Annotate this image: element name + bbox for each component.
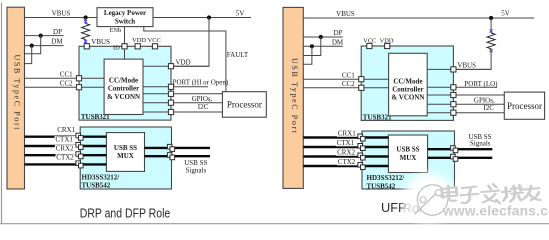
pin VDD top of U1 xyxy=(135,44,140,49)
svg-text:CC1: CC1 xyxy=(60,70,73,78)
pin SS RX of U7 xyxy=(451,154,458,161)
svg-text:USB SS: USB SS xyxy=(114,144,137,152)
watermark glyph dian xyxy=(441,186,458,202)
svg-text:5V: 5V xyxy=(501,9,510,17)
svg-text:USB SS: USB SS xyxy=(396,146,419,154)
svg-text:USB TypeC Port: USB TypeC Port xyxy=(13,55,22,131)
pin PORT of U5 xyxy=(451,85,456,90)
svg-text:CTX1: CTX1 xyxy=(55,136,73,144)
svg-text:5V: 5V xyxy=(236,9,245,17)
net label CRX1 right xyxy=(337,129,359,137)
svg-text:CC/Mode: CC/Mode xyxy=(109,77,138,85)
junction DM right xyxy=(310,44,314,48)
wire DM of J2 xyxy=(303,45,343,47)
wire 5V rail from switch output xyxy=(153,17,251,19)
svg-text:ID: ID xyxy=(113,45,120,52)
svg-text:DM: DM xyxy=(332,38,344,46)
pin VBUS of U5 xyxy=(451,67,456,72)
svg-text:CC2: CC2 xyxy=(342,80,355,88)
pin CRX2 of U7 xyxy=(358,153,365,160)
wire USB SS pair 1 out of right mux xyxy=(428,148,493,150)
svg-text:I2C: I2C xyxy=(198,103,209,111)
wire DP return to J1 xyxy=(25,36,41,54)
wire R2 top lead xyxy=(490,18,492,33)
pin GPIO2 of U5 xyxy=(451,102,456,107)
frame left border line xyxy=(1,3,3,224)
TUSB321 device U1 xyxy=(79,46,171,120)
watermark glyph shao xyxy=(502,185,524,203)
net label CTX2 xyxy=(56,154,77,162)
svg-text:Processor: Processor xyxy=(227,100,262,110)
wire DM return to J1 xyxy=(25,46,32,64)
pin CTX2 of U7 xyxy=(358,163,365,170)
wire CRX1 pair from J1 to mux xyxy=(25,135,107,137)
net label CTX1 right xyxy=(336,139,359,147)
pin CTX1 of U4 xyxy=(76,143,83,150)
wire CTX1 pair from J1 to mux xyxy=(25,145,107,147)
svg-text:CTX2: CTX2 xyxy=(338,158,356,166)
pin GPIO2 of U1 xyxy=(168,100,173,105)
wire DP of J1 xyxy=(25,35,64,37)
wire CC2 from J2 to U5 xyxy=(303,87,388,89)
svg-text:DM: DM xyxy=(51,38,63,46)
junction on 5V rail to VDD xyxy=(207,15,211,19)
resistor R2 (VBUS pull) xyxy=(487,33,495,49)
svg-text:MUX: MUX xyxy=(400,154,417,162)
R2 bottom terminal mark xyxy=(490,49,493,52)
wire R2 to VBUS pin of U5 xyxy=(456,49,491,70)
wire CC2 from J1 to U1 xyxy=(25,86,105,88)
USB SS MUX core of U4 xyxy=(106,133,144,172)
wire R1 bottom lead xyxy=(85,40,87,45)
net label CRX2 right xyxy=(336,148,358,156)
svg-text:USB TypeC Port: USB TypeC Port xyxy=(290,58,299,134)
CC/Mode controller core of U1 xyxy=(104,59,143,114)
svg-text:CRX2: CRX2 xyxy=(337,148,355,156)
svg-text:VCC: VCC xyxy=(363,37,376,44)
processor U3 xyxy=(222,92,266,118)
svg-text:CRX1: CRX1 xyxy=(338,129,356,137)
wire CC1 from J2 to U5 xyxy=(303,78,388,80)
wire CTX1 pair from J2 to mux xyxy=(303,146,388,148)
pin CC1 of U5 xyxy=(359,77,364,82)
svg-text:ENb: ENb xyxy=(110,27,122,34)
svg-text:VBUS: VBUS xyxy=(52,9,71,17)
watermark white halo xyxy=(403,173,455,223)
pin GPIO1 of U1 xyxy=(168,91,173,96)
junction DM left xyxy=(30,44,34,48)
svg-text:I2C: I2C xyxy=(483,104,494,112)
wire GPIO line 2 U1 to processor xyxy=(143,102,222,104)
pin CC2 of U5 xyxy=(359,85,364,90)
wire I2C line U5 to processor xyxy=(427,112,504,114)
wire CTX2 pair from J2 to mux xyxy=(303,165,388,167)
svg-text:CRX1: CRX1 xyxy=(57,126,75,134)
HD3SS3212/TUSB542 mux device U7 xyxy=(362,131,455,189)
svg-text:Signals: Signals xyxy=(186,166,207,174)
USB SS MUX core of U7 xyxy=(388,135,427,173)
wire DM of J1 xyxy=(25,45,64,47)
CC/Mode controller core of U5 xyxy=(389,53,428,116)
pin CRX1 of U7 xyxy=(358,134,365,141)
wire GPIO line 1 U1 to processor xyxy=(143,93,222,95)
wire VDD side pin of U1 xyxy=(143,65,209,67)
wire USB SS pair 1 out of mux xyxy=(145,147,211,149)
svg-text:Signals: Signals xyxy=(470,140,491,148)
wire ID pin to controller core xyxy=(124,49,126,59)
wire PORT stub of U1 xyxy=(143,86,208,88)
resistor R1 (VBUS pull) xyxy=(82,24,90,40)
wire CC1 from J1 to U1 xyxy=(25,77,105,79)
pin CTX1 of U7 xyxy=(358,144,365,151)
wire FAULT from U2 to processor xyxy=(144,27,226,92)
pin GPIO1 of U5 xyxy=(451,92,456,97)
svg-text:Controller: Controller xyxy=(392,85,423,93)
svg-text:PORT (LO): PORT (LO) xyxy=(464,80,498,88)
svg-text:CTX2: CTX2 xyxy=(56,154,74,162)
svg-text:VBUS: VBUS xyxy=(91,38,110,46)
processor U6 xyxy=(504,92,544,119)
svg-text:& VCONN: & VCONN xyxy=(107,93,140,101)
svg-text:VCC: VCC xyxy=(148,37,161,44)
svg-text:HD3SS3212/: HD3SS3212/ xyxy=(82,173,121,181)
pin PORT of U1 xyxy=(168,84,173,89)
svg-text:TUSB542: TUSB542 xyxy=(367,183,396,191)
TUSB321 device U5 xyxy=(361,46,453,120)
junction on 5V rail at resistor R2 xyxy=(489,16,493,20)
watermark logo connector circle B xyxy=(435,190,441,196)
pin VDD side of U1 xyxy=(168,64,173,69)
svg-text:www.elecfans.com: www.elecfans.com xyxy=(442,204,549,219)
wire GPIO line 1 U5 to processor xyxy=(427,94,504,96)
net label CRX1 xyxy=(56,126,76,134)
watermark CJK text group xyxy=(441,184,541,204)
svg-text:Legacy Power: Legacy Power xyxy=(104,9,146,17)
svg-text:& VCONN: & VCONN xyxy=(391,94,424,102)
svg-text:TUSB321: TUSB321 xyxy=(363,113,392,121)
wire VBUS from J1 to legacy power switch xyxy=(25,17,98,19)
pin I2C of U5 xyxy=(451,110,456,115)
pin CTX2 of U4 xyxy=(76,161,83,168)
wire DP of J2 xyxy=(303,36,343,38)
svg-text:CRX2: CRX2 xyxy=(56,144,74,152)
wire CRX2 pair from J1 to mux xyxy=(25,154,107,156)
wire I2C line U1 to processor xyxy=(143,111,222,113)
svg-text:Switch: Switch xyxy=(115,17,135,25)
svg-text:GPIOs,: GPIOs, xyxy=(192,95,213,103)
svg-text:MUX: MUX xyxy=(117,152,134,160)
svg-text:TUSB542: TUSB542 xyxy=(82,182,111,190)
wire CRX1 pair from J2 to mux xyxy=(303,136,388,138)
svg-text:CC/Mode: CC/Mode xyxy=(393,77,422,85)
svg-text:VDD: VDD xyxy=(380,37,394,44)
pin I2C of U1 xyxy=(168,109,173,114)
svg-text:Controller: Controller xyxy=(108,85,139,93)
net label CTX2 right xyxy=(337,158,359,166)
net label CTX1 xyxy=(55,136,77,144)
junction on VBUS at resistor R1 xyxy=(84,15,88,19)
watermark logo circle xyxy=(417,185,447,215)
R2 top terminal mark xyxy=(490,29,493,32)
wire CTX2 pair from J1 to mux xyxy=(25,163,107,165)
R1 bottom terminal mark xyxy=(84,40,87,43)
pin SS RX of U4 xyxy=(167,153,174,160)
pin VDD of U5 xyxy=(385,43,390,48)
wire ENb from U2 to ID pin xyxy=(124,27,126,44)
pin CC2 of U1 xyxy=(76,85,81,90)
wire VBUS rail of J2 to 5V xyxy=(303,17,534,19)
wire USB SS pair 2 out of mux xyxy=(145,155,211,157)
svg-text:VBUS: VBUS xyxy=(336,10,355,18)
pin ID of U1 xyxy=(122,44,127,49)
pin CRX1 of U4 xyxy=(76,133,83,140)
pin SS TX of U7 xyxy=(451,146,458,153)
svg-text:PORT (HI or Open): PORT (HI or Open) xyxy=(173,79,229,87)
R1 top terminal mark xyxy=(84,20,87,23)
wire PORT stub of U5 xyxy=(427,86,497,88)
pin VCC of U5 xyxy=(367,43,372,48)
wire GPIO line 2 U5 to processor xyxy=(427,103,504,105)
watermark logo cable line xyxy=(415,193,438,215)
svg-text:CC1: CC1 xyxy=(342,71,355,79)
USB Type-C port connector J1 xyxy=(7,7,25,189)
pin VCC of U1 xyxy=(152,44,157,49)
junction DP right xyxy=(319,35,323,39)
wire R1 top lead xyxy=(85,18,87,24)
svg-text:HD3SS3212/: HD3SS3212/ xyxy=(367,174,406,182)
wire VBUS pin of U5 to resistor xyxy=(427,68,491,70)
watermark logo connector circle A xyxy=(420,197,426,203)
svg-text:VBUS: VBUS xyxy=(457,61,476,69)
watermark glyph zi xyxy=(461,187,479,204)
wire DM return to J2 xyxy=(303,46,312,64)
svg-text:VDD: VDD xyxy=(176,59,191,67)
pin VBUS of U1 xyxy=(84,44,89,49)
USB Type-C port connector J2 xyxy=(283,7,303,188)
legacy power switch U2 xyxy=(97,8,153,27)
net label CRX2 xyxy=(55,144,77,152)
svg-text:DP: DP xyxy=(334,29,343,37)
watermark glyph fa xyxy=(482,184,501,204)
wire CRX2 pair from J2 to mux xyxy=(303,155,388,157)
svg-text:FAULT: FAULT xyxy=(227,51,249,59)
svg-text:CTX1: CTX1 xyxy=(337,139,355,147)
svg-text:DP: DP xyxy=(53,28,62,36)
svg-text:VDD: VDD xyxy=(132,37,146,44)
svg-text:CC2: CC2 xyxy=(60,79,73,87)
junction DP left xyxy=(39,34,43,38)
pin CRX2 of U4 xyxy=(76,152,83,159)
wire DP return to J2 xyxy=(303,37,321,56)
pin SS TX of U4 xyxy=(167,144,174,151)
watermark glyph you xyxy=(523,186,541,201)
svg-text:Processor: Processor xyxy=(507,101,542,111)
pin CC1 of U1 xyxy=(76,76,81,81)
wire 5V junction down to VDD pin xyxy=(172,18,209,67)
frame bottom border line xyxy=(0,223,549,225)
wire USB SS pair 2 out of right mux xyxy=(428,157,493,159)
svg-text:DRP and DFP Role: DRP and DFP Role xyxy=(80,206,171,221)
HD3SS3212/TUSB542 mux device U4 xyxy=(80,127,171,189)
